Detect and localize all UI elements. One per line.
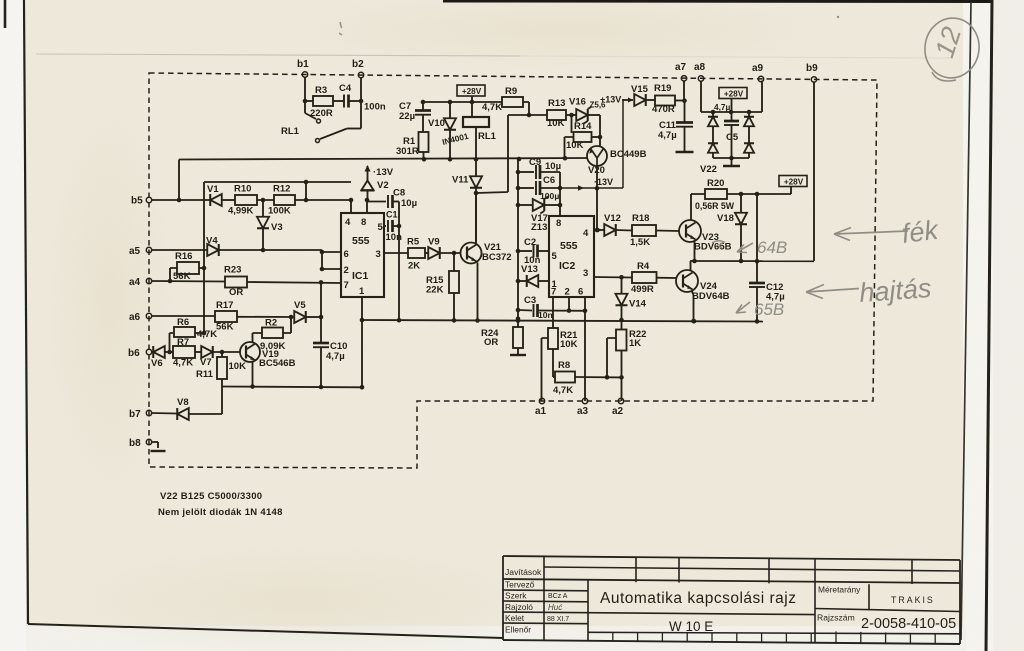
svg-text:4: 4 [345,217,351,228]
wire IC2 pin2 stub [568,297,570,311]
resistor R7 [173,346,195,358]
wire top link y182 [204,181,351,183]
node a1 [539,398,544,403]
svg-text:2-0058-410-05: 2-0058-410-05 [861,616,956,632]
wire IC1 pin1 riser [361,297,363,387]
ground bridge [723,165,740,167]
diode V14 [621,277,623,294]
wire IC2 pin6 stub / a3 riser [584,297,586,401]
wire C9 right [541,172,561,216]
wire IC2 pin7 to R21 [552,297,554,328]
svg-text:R13: R13 [548,98,565,109]
switch RL1 blade [320,129,347,140]
wire V1 to R10 [222,199,235,201]
svg-text:R16: R16 [175,251,192,262]
svg-text:C3: C3 [524,295,536,306]
pencil tick near V23 [737,243,753,253]
node b9 [811,77,816,82]
svg-text:C9: C9 [529,157,541,168]
wire bridge bottom rail [713,157,749,159]
svg-text:R4: R4 [637,261,650,272]
svg-text:1,5K: 1,5K [630,237,650,248]
supply +28V box bridge [719,88,747,99]
wire a1 riser [542,338,549,401]
wire V15 to R19 [646,99,656,101]
diode V9 [428,247,440,259]
svg-text:R10: R10 [234,184,251,195]
svg-text:a3: a3 [577,406,589,417]
supply +28V box right [779,176,807,187]
svg-text:a5: a5 [129,246,141,257]
svg-text:+13V: +13V [600,95,621,105]
svg-text:b6: b6 [128,348,140,359]
wire C3 line to pins 2 6 [538,310,585,312]
wire C11 to ground [684,127,686,151]
svg-text:Z13: Z13 [531,222,547,233]
node b6 [146,349,151,354]
wire V16 to node [588,114,601,116]
svg-text:a9: a9 [752,63,764,74]
svg-text:a2: a2 [612,406,624,417]
wire b1 node to R3 [305,100,313,102]
wire 13V vertical to C6 line [622,100,624,188]
svg-text:4,99K: 4,99K [228,206,253,217]
svg-text:hajtás: hajtás [858,273,932,308]
svg-text:100n: 100n [364,102,386,113]
svg-text:22µ: 22µ [399,111,415,122]
stray speck [837,16,839,18]
svg-text:Rajzoló: Rajzoló [505,602,533,612]
wire b2 drop [360,78,362,129]
resistor R21 [548,328,558,349]
wire R8 right line [575,376,622,378]
svg-text:100K: 100K [268,206,291,217]
transistor V23 [679,220,701,242]
wire R14 left drop to rail B [565,137,574,158]
wire V3 to a5 line [262,228,264,250]
svg-text:1K: 1K [629,338,641,349]
wire a9 drop [761,81,763,113]
wire b5 line [152,199,210,201]
diode V11 [475,159,477,177]
arrow to fék [834,228,908,241]
svg-text:4,7µ: 4,7µ [714,102,731,112]
node a7 [681,76,686,81]
wire a4 line [152,280,226,283]
wire IC1 pin8 riser [366,200,368,213]
wire coil to rail B [475,127,477,159]
svg-text:5: 5 [552,251,558,262]
wire R12 riser [305,182,307,200]
wire +13V arrow [622,99,633,101]
svg-text:Ellenőr: Ellenőr [505,625,531,635]
capacitor C3 [518,309,532,312]
wire R14 right [592,136,601,138]
svg-text:4: 4 [583,228,589,239]
resistor R3 [313,96,333,106]
svg-text:TRAKIS: TRAKIS [891,595,935,605]
resistor R16 [170,268,177,281]
resistor R5 [408,248,425,258]
svg-text:IC1: IC1 [352,270,369,282]
wire V6 to R7 [165,351,173,353]
svg-text:Méretarány: Méretarány [818,585,861,595]
frame faint top rule [36,54,520,56]
capacitor C9 [518,171,534,173]
svg-text:2K: 2K [408,261,420,272]
svg-text:a8: a8 [694,62,706,73]
svg-text:OR: OR [229,287,243,298]
wire V13 to pin1 [538,280,549,282]
wire C1 right [393,225,399,227]
capacitor C4 [343,95,345,108]
transistor V20 [587,146,607,166]
svg-text:·13V: ·13V [594,177,613,187]
wire C12 to bottom rail [756,287,758,321]
svg-text:8: 8 [361,217,366,228]
svg-text:64B: 64B [757,238,787,257]
wire bridge top rail [701,111,762,113]
wire C8 C1 riser [398,202,400,321]
wire R1 to rail B [423,152,425,159]
wire rail B riser to b5 [178,160,180,201]
diode bridge right top [748,112,750,116]
resistor R6 [170,333,174,352]
wire R22 stem [621,320,623,330]
wire V21 emitter [477,263,479,321]
wire 28V box stub bridge [731,99,733,113]
switch contact RL1 fixed [317,119,321,123]
svg-text:a6: a6 [129,312,141,323]
capacitor C1 [384,225,386,227]
svg-text:C8: C8 [393,188,405,199]
resistor R23 [225,277,247,288]
transistor V24 [676,270,698,292]
svg-text:V22 B125 C5000/3300: V22 B125 C5000/3300 [160,491,262,502]
wire R9 right drop [523,102,529,115]
wire V11 node [475,188,477,243]
diode V13 [518,280,527,282]
svg-text:10K: 10K [560,339,578,350]
diode V4 [207,244,219,256]
svg-text:65B: 65B [754,300,784,319]
wire R13 to V16 [566,114,577,116]
svg-text:V7: V7 [200,357,212,368]
svg-text:R14: R14 [574,121,592,132]
wire IC1 pin3 to R5 [384,252,408,254]
wire C4 to b2 [349,100,361,102]
wire C6 right [541,187,561,189]
svg-text:BC546B: BC546B [259,358,296,369]
wire R22 bottom / a2 riser [621,351,623,402]
diode V12 [594,229,604,231]
wire R12 right [295,199,351,201]
wire 28V box stub / coil [471,96,473,117]
svg-text:4,7K: 4,7K [173,358,193,369]
svg-text:Huć: Huć [548,603,562,612]
handwritten circled 12 [921,15,983,82]
wire V14 to bottom rail [621,305,623,320]
svg-text:V12: V12 [604,213,621,224]
svg-text:R6: R6 [177,317,189,328]
page border left edge [24,0,28,624]
wire R5 to V9 [425,252,429,254]
wire R16 right [199,267,204,269]
svg-text:V6: V6 [151,358,163,369]
wire 28V rail A [423,101,502,103]
node a5 [146,247,151,252]
diode V18 [740,194,742,213]
arrow to hajtás [806,285,859,299]
svg-text:BC449B: BC449B [610,149,647,160]
wire R3 to C4 [333,100,344,102]
resistor R14 [574,132,592,142]
svg-text:4,7µ: 4,7µ [326,351,345,362]
svg-text:4,7µ: 4,7µ [658,130,677,141]
svg-text:V9: V9 [428,237,440,248]
resistor R11 [221,352,223,357]
wire lower link y386 [222,386,362,389]
resistor R2 [283,317,291,333]
svg-text:56K: 56K [216,322,234,333]
svg-text:R5: R5 [407,237,420,248]
wire R15 bottom [453,293,455,320]
resistor R18 [632,225,656,236]
paper texture [0,0,1,1]
svg-text:V3: V3 [271,222,283,233]
svg-text:OR: OR [484,337,498,348]
page border right outer edge [986,0,992,651]
zener diode V17 [518,204,533,206]
node a2 [618,398,623,403]
resistor R9 [502,97,523,107]
wire V19 emitter [252,362,254,387]
resistor R15 [453,253,455,271]
svg-text:V11: V11 [452,175,469,186]
svg-text:b8: b8 [129,438,141,449]
wire R20 right rail [727,193,791,195]
wire b1 drop [305,77,316,119]
wire V10 to rail B [449,130,451,159]
svg-text:R11: R11 [196,369,214,380]
wire R18 to V23 base [656,230,680,233]
resistor R1 [419,132,429,152]
wire bridge ground stem [731,158,733,165]
diode V10 [449,102,451,118]
svg-text:100µ: 100µ [540,191,559,201]
wire R2 left to V19 collector [253,333,263,342]
wire 28V box stub right [790,187,792,195]
resistor R20 [705,189,727,199]
capacitor C7 [422,102,424,110]
svg-text:220R: 220R [310,108,333,119]
svg-text:BDV64B: BDV64B [692,291,730,302]
wire a6 line [152,315,216,317]
wire R6 right [195,332,204,334]
wire V23 emitter rail [690,260,814,262]
node b1 [302,72,307,77]
wire V24 collector [690,261,692,271]
svg-text:Szerk: Szerk [505,591,527,601]
wire C2 to pin5 [538,250,549,252]
svg-text:R17: R17 [216,300,233,311]
svg-text:V22: V22 [700,164,717,175]
svg-text:Javítások: Javítások [505,567,542,577]
wire V18 to emitter rail [740,224,742,261]
svg-text:7: 7 [344,280,349,291]
wire b6 line [152,351,154,353]
page border top black edge [443,0,992,3]
capacitor C6 [518,187,534,189]
svg-text:R23: R23 [224,265,241,276]
svg-text:C6: C6 [543,175,555,186]
svg-text:2: 2 [344,265,349,276]
svg-text:V10: V10 [428,118,445,129]
pencil tick near V24 [736,302,750,313]
svg-text:BCz A: BCz A [548,593,568,600]
svg-text:C5: C5 [726,132,739,143]
op-amp timer IC1 [341,213,384,297]
wire R23 to pin7 [247,282,341,283]
svg-text:88 XI.7: 88 XI.7 [547,616,569,623]
wire main bottom rail [362,320,763,322]
capacitor C11 [684,101,686,122]
ground under C11 [676,151,694,153]
wire R17 right [237,316,294,318]
svg-text:10K: 10K [566,140,584,151]
svg-text:Automatika kapcsolási rajz: Automatika kapcsolási rajz [600,590,797,607]
svg-text:6: 6 [578,287,583,298]
resistor R4 [632,272,657,283]
dashed circuit boundary [149,73,877,468]
wire V23 emitter drop [694,240,696,261]
wire R20 left to V23 collector [691,194,705,221]
wire R10 to R12 [257,199,274,201]
wire R13 input line [508,114,547,116]
resistor R8 [555,372,575,383]
svg-text:22K: 22K [426,285,444,296]
wire 13V link line [560,187,623,189]
resistor R17 [215,311,237,322]
wire V9 right [440,252,460,254]
svg-text:b9: b9 [806,63,818,74]
wire b8 ground [152,442,159,448]
svg-text:Rajzszám: Rajzszám [817,613,855,623]
svg-text:R7: R7 [177,337,189,348]
diode V15 [634,94,646,106]
wire V4 right [219,249,322,251]
resistor R12 [274,195,295,205]
wire C12 riser [756,194,758,283]
svg-text:C2: C2 [524,237,536,248]
wire C10 bottom [320,347,322,387]
svg-text:V14: V14 [629,299,647,310]
svg-text:10n: 10n [386,232,403,243]
diode V1 [210,194,222,206]
svg-text:V1: V1 [207,184,219,195]
diode V7 [201,346,213,358]
supply +28V box top [457,85,485,96]
diode bridge left top [712,112,714,116]
zener diode V16 [576,109,588,121]
wire V20 emitter down [596,167,598,231]
capacitor C12 [749,282,765,285]
wire b7 riser [221,387,223,415]
svg-text:a7: a7 [675,62,687,73]
svg-text:+28V: +28V [784,177,804,186]
wire a8 drop [700,81,702,113]
svg-text:Tervező: Tervező [505,580,535,590]
diode V6 [153,346,165,358]
svg-text:555: 555 [352,235,370,247]
wire R24 ground stem [517,348,519,354]
node a8 [698,76,703,81]
diode V8 [177,408,189,420]
svg-text:R8: R8 [558,360,570,371]
svg-text:b7: b7 [129,409,141,420]
svg-text:b1: b1 [297,59,309,70]
svg-text:b2: b2 [352,59,364,70]
svg-text:Nem jelölt diodák 1N 4148: Nem jelölt diodák 1N 4148 [158,507,283,518]
resistor R13 [547,110,566,120]
node a9 [758,76,763,81]
svg-text:5: 5 [378,222,384,233]
diode bridge left bottom [712,127,714,144]
op-amp timer IC2 [549,216,594,297]
svg-text:R19: R19 [654,83,671,94]
svg-text:R18: R18 [632,213,649,224]
svg-text:V18: V18 [717,213,734,224]
wire C8 right [393,201,399,203]
transistor V19 [240,342,260,362]
resistor R24 [517,319,519,327]
wire left long vertical [203,182,205,333]
wire V16 node drop to V20 [599,115,601,147]
svg-text:555: 555 [560,240,578,252]
diode V5 [294,311,306,323]
svg-text:·13V: ·13V [373,167,394,178]
wire a7 drop [683,81,685,102]
svg-text:4,7K: 4,7K [482,102,502,113]
wire R7 to V7 [195,351,201,353]
svg-text:W 10 E: W 10 E [669,619,713,634]
svg-text:R2: R2 [265,318,277,329]
svg-text:Kelet: Kelet [505,613,525,623]
svg-text:BC372: BC372 [482,252,512,263]
resistor R10 [235,195,257,205]
svg-text:4,7K: 4,7K [197,329,217,340]
svg-text:a4: a4 [129,277,141,288]
stray mark top center [339,22,342,35]
relay coil RL1 [463,117,489,127]
svg-text:+28V: +28V [462,87,482,96]
node a3 [582,398,587,403]
svg-text:3: 3 [376,249,381,260]
wire V7 to V19 base [213,351,240,353]
wire C7 to R1 [422,115,424,132]
wire R4 to V24 base [657,277,677,279]
svg-text:V8: V8 [177,397,189,408]
wire rail B 13V [179,158,588,160]
node a4 [146,278,151,283]
svg-text:R20: R20 [707,178,724,189]
svg-text:R12: R12 [273,184,290,195]
diode V3 [262,200,264,217]
svg-text:1: 1 [359,286,365,297]
resistor R22 [616,330,627,351]
wire IC1 pin2 stub [322,268,341,270]
pencil scribble on BDV65B [712,241,724,248]
